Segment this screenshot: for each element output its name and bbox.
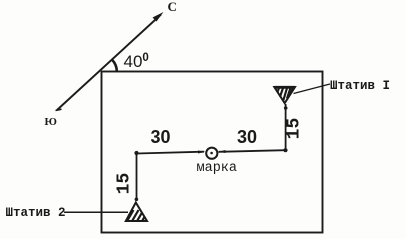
label 40 degrees (124, 53, 149, 70)
label Ю (south) (45, 117, 57, 128)
label C (north) (168, 0, 177, 13)
angle arc 40 deg (112, 60, 117, 72)
site boundary rectangle (102, 72, 323, 233)
wire: left vertical line (15 m) (136, 153, 138, 200)
nub where wire meets mark circle (left) (198, 151, 205, 154)
label 15 (left, rotated) (116, 168, 133, 198)
nub where wire meets mark circle (right) (218, 150, 225, 153)
tripod 1 triangle (hatched, inverted) (274, 87, 295, 103)
leader line to tripod 1 label (294, 84, 331, 94)
label 15 (right, rotated) (286, 113, 303, 143)
leader line to tripod 2 label (64, 211, 128, 213)
label Штатив 2 (6, 207, 66, 220)
mark center dot (210, 152, 213, 155)
tick at south end (56, 109, 62, 110)
tripod 2 triangle (hatched) (126, 203, 149, 223)
wire: left horizontal line (30 m) (137, 152, 205, 154)
north-south arrow line (57, 15, 161, 111)
mark circle (марка) (206, 148, 217, 159)
label марка (197, 162, 238, 176)
node: corner dot right (283, 148, 287, 152)
label 30 (left span) (151, 128, 171, 146)
label 30 (right span) (237, 128, 257, 146)
label Штатив 1 (330, 80, 390, 93)
wire: right vertical line (15 m) (285, 104, 287, 150)
arrowhead at C (north) (153, 12, 164, 22)
node: dot below tripod 1 (284, 106, 288, 110)
wire: right horizontal line (30 m) (219, 150, 286, 152)
node: dot above tripod 2 (135, 198, 139, 202)
node: corner dot left (134, 151, 138, 155)
